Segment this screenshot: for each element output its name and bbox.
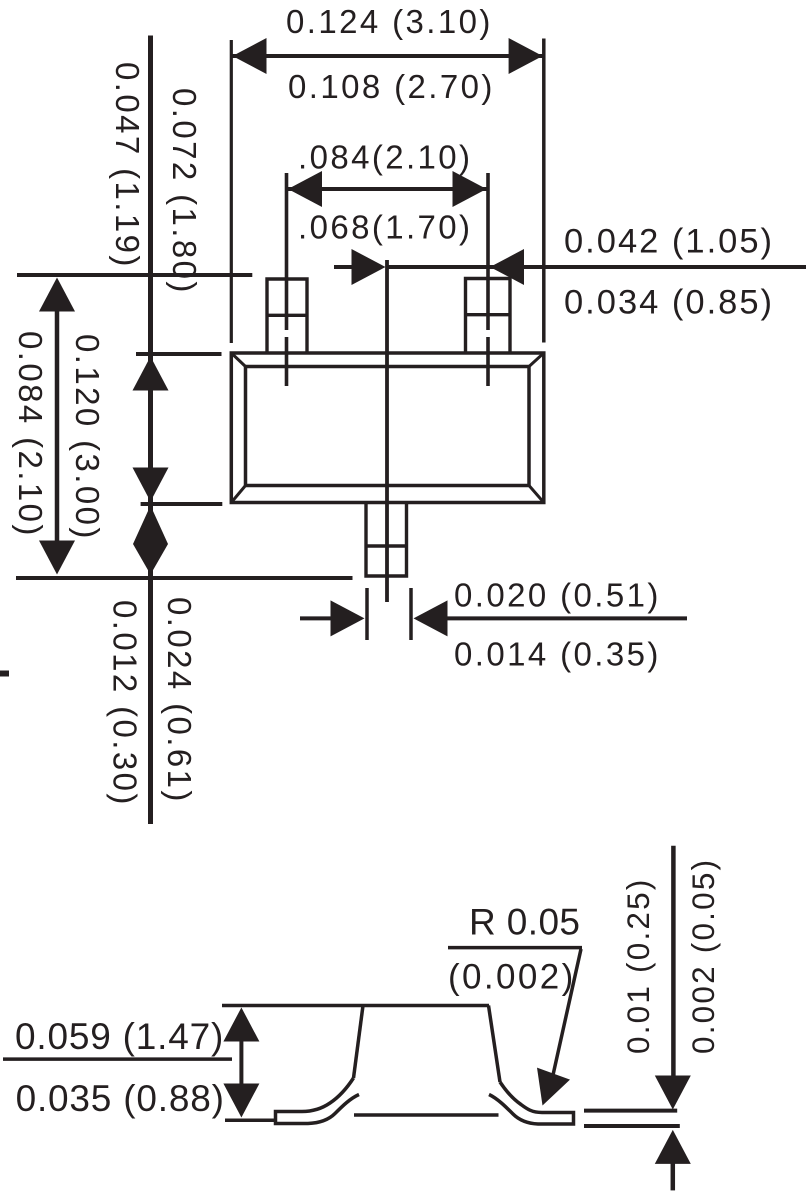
- svg-text:(0.002): (0.002): [448, 958, 576, 997]
- svg-text:R 0.05: R 0.05: [469, 902, 580, 943]
- svg-text:0.059 (1.47): 0.059 (1.47): [15, 1016, 224, 1057]
- svg-text:.084(2.10): .084(2.10): [298, 139, 472, 176]
- svg-text:0.124 (3.10): 0.124 (3.10): [286, 3, 493, 40]
- svg-text:.068(1.70): .068(1.70): [298, 209, 472, 246]
- svg-text:0.034 (0.85): 0.034 (0.85): [564, 284, 774, 322]
- svg-text:0.024 (0.61): 0.024 (0.61): [161, 597, 198, 804]
- svg-text:0.002 (0.05): 0.002 (0.05): [685, 858, 721, 1054]
- svg-text:0.020 (0.51): 0.020 (0.51): [454, 577, 661, 614]
- svg-text:0.01 (0.25): 0.01 (0.25): [620, 877, 656, 1054]
- svg-text:0.084 (2.10): 0.084 (2.10): [12, 331, 49, 538]
- svg-text:0.014 (0.35): 0.014 (0.35): [454, 636, 661, 673]
- svg-text:0.035 (0.88): 0.035 (0.88): [16, 1078, 225, 1119]
- svg-text:0.108 (2.70): 0.108 (2.70): [288, 68, 495, 105]
- svg-text:0.120 (3.00): 0.120 (3.00): [69, 334, 106, 541]
- svg-text:0.047 (1.19): 0.047 (1.19): [109, 62, 146, 269]
- svg-text:0.072 (1.80): 0.072 (1.80): [166, 88, 203, 295]
- svg-text:0.042 (1.05): 0.042 (1.05): [564, 223, 774, 261]
- svg-text:0.012 (0.30): 0.012 (0.30): [107, 600, 144, 807]
